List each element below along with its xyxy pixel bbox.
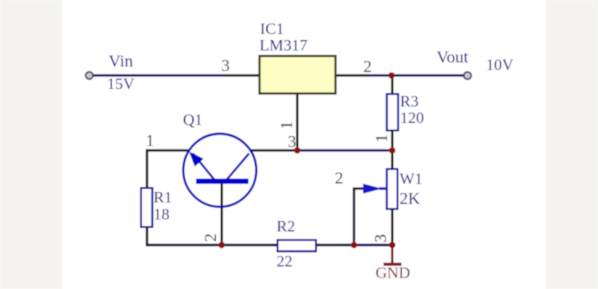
junction gnd xyxy=(389,242,395,248)
regulator IC1 body xyxy=(260,56,336,94)
svg-text:Vout: Vout xyxy=(437,48,469,67)
port Vin terminal xyxy=(86,72,93,79)
junction top right xyxy=(388,72,394,78)
svg-text:Q1: Q1 xyxy=(183,112,203,129)
wiper wire xyxy=(354,189,366,245)
resistor R3 xyxy=(387,94,398,131)
resistor R1 xyxy=(141,188,152,227)
svg-text:R2: R2 xyxy=(277,219,296,236)
svg-text:120: 120 xyxy=(400,110,424,127)
wire bottom right xyxy=(354,244,392,246)
potentiometer W1 xyxy=(387,169,398,209)
svg-text:R3: R3 xyxy=(400,94,419,111)
base line down xyxy=(221,183,223,245)
wire R1 bottom xyxy=(146,227,148,246)
collector line xyxy=(227,154,249,180)
svg-text:3: 3 xyxy=(371,234,390,243)
svg-text:18: 18 xyxy=(154,207,170,224)
emitter arrow xyxy=(189,152,204,167)
transistor Q1 xyxy=(183,134,256,245)
svg-text:10V: 10V xyxy=(486,57,514,74)
svg-text:LM317: LM317 xyxy=(260,38,308,55)
resistor R2 xyxy=(278,240,317,251)
svg-text:15V: 15V xyxy=(107,76,135,93)
junction adj-collector xyxy=(294,147,300,153)
wiper arrow xyxy=(363,184,382,194)
pin R3 bottom xyxy=(391,131,393,151)
pin 1 of IC1 xyxy=(296,94,298,151)
wire bottom middle xyxy=(316,244,354,246)
svg-text:R1: R1 xyxy=(154,190,173,207)
wire left rail xyxy=(146,149,148,188)
port Vout terminal xyxy=(464,72,471,79)
wire Vout net xyxy=(368,74,465,76)
pin W1 bottom xyxy=(391,209,393,245)
pin W1 top xyxy=(391,150,393,169)
junction R3-W1 xyxy=(389,147,395,153)
svg-text:2: 2 xyxy=(201,233,220,242)
svg-text:3: 3 xyxy=(288,132,297,151)
ground xyxy=(384,245,402,264)
wire Vin net xyxy=(92,74,224,76)
svg-text:22: 22 xyxy=(277,254,293,271)
svg-text:2: 2 xyxy=(335,169,344,188)
svg-text:1: 1 xyxy=(372,134,391,143)
pin 2 of IC1 xyxy=(336,74,369,76)
wire bottom left xyxy=(147,244,278,246)
wire emitter left xyxy=(147,149,189,151)
wire collector to junction xyxy=(250,149,297,151)
emitter line xyxy=(193,154,214,180)
svg-text:IC1: IC1 xyxy=(260,21,284,38)
wiper arrow shaft xyxy=(379,187,387,190)
junction base-bottom xyxy=(218,242,224,248)
svg-text:GND: GND xyxy=(375,265,410,282)
svg-text:1: 1 xyxy=(146,131,155,150)
junction wiper-bottom xyxy=(351,242,357,248)
pin R3 top xyxy=(391,75,393,94)
wire adj net xyxy=(297,149,392,151)
svg-text:2K: 2K xyxy=(400,189,422,208)
pin 3 of IC1 xyxy=(224,74,260,76)
svg-text:Vin: Vin xyxy=(109,52,134,71)
svg-text:2: 2 xyxy=(363,57,372,76)
base bar xyxy=(196,179,249,184)
svg-text:3: 3 xyxy=(221,56,230,75)
svg-text:W1: W1 xyxy=(400,171,423,188)
svg-text:1: 1 xyxy=(277,121,296,130)
